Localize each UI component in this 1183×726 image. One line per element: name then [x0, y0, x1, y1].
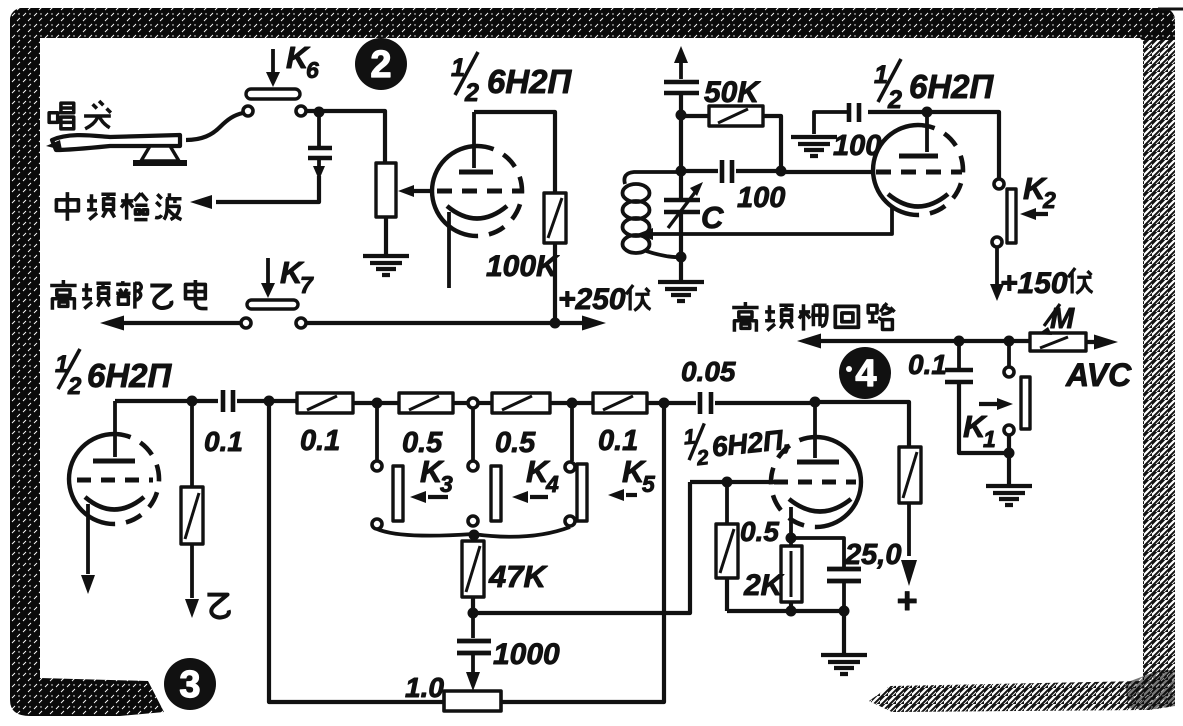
- node top of tank: [676, 110, 687, 121]
- border bottom-right corner shade: [1125, 670, 1175, 710]
- capacitor 0.05: [700, 392, 815, 414]
- node at K6 output: [314, 107, 325, 118]
- node cathode: [786, 533, 797, 544]
- border right bar: [1143, 10, 1175, 702]
- tube U2 1/2 6N2P label: [874, 59, 995, 114]
- capacitor (antenna coupling): [664, 82, 699, 115]
- wire K6 to pot: [307, 111, 385, 163]
- plate load wire: [815, 402, 909, 447]
- svg-text:2K: 2K: [743, 569, 785, 602]
- arrow +150V down: [990, 247, 1004, 301]
- AVC line: [797, 334, 1030, 349]
- svg-text:25,0: 25,0: [844, 539, 901, 571]
- svg-text:0.1: 0.1: [300, 425, 340, 457]
- wire plate to K2: [927, 112, 999, 178]
- svg-text:2: 2: [370, 44, 391, 86]
- label 高频栅回路: [732, 302, 894, 332]
- wire 1.0 to right riser: [501, 403, 664, 702]
- tube U1 plate: [459, 112, 493, 172]
- svg-text:M: M: [1050, 303, 1075, 335]
- coil L (tank): [623, 172, 682, 257]
- capacitor 100 (series): [681, 160, 781, 183]
- svg-text:6Н2П: 6Н2П: [87, 357, 173, 394]
- wire 47K node to U4 grid: [473, 482, 690, 613]
- tube U4 cathode: [789, 499, 851, 512]
- svg-text:4: 4: [545, 471, 559, 497]
- node grid line left: [676, 166, 687, 177]
- arrow to B (乙): [185, 544, 229, 618]
- switch K6: [243, 40, 319, 116]
- svg-text:AVC: AVC: [1065, 357, 1132, 393]
- capacitor 0.1 (coupling): [223, 390, 297, 412]
- resistor 2K: [781, 538, 802, 611]
- switch K4: [468, 408, 559, 526]
- tube U3 envelope: [69, 434, 159, 524]
- section marker 2: [355, 38, 407, 90]
- tube U3 grid (dashed): [77, 478, 153, 483]
- ground (cathode): [821, 611, 867, 674]
- switch common bus: [377, 527, 570, 537]
- resistor 1M: [1030, 333, 1118, 351]
- capacitor 1000: [457, 613, 491, 691]
- wire pickup to K6 left contact: [186, 113, 243, 140]
- tube U2 cathode: [888, 194, 948, 207]
- cathode bottom bus: [727, 609, 844, 613]
- switch K3: [372, 403, 453, 529]
- node 2K bottom: [786, 606, 797, 617]
- svg-text:47K: 47K: [488, 559, 548, 594]
- ground (grid bypass): [791, 137, 837, 156]
- wire grid line to tube: [781, 170, 875, 174]
- node bottom bus junction: [659, 398, 670, 409]
- label +250伏: [558, 283, 651, 316]
- arrow +250V: [582, 316, 606, 331]
- label 唱头: [49, 101, 111, 129]
- tube U1 cathode lead: [447, 212, 451, 288]
- node bus / 47K: [469, 530, 480, 541]
- tube U3 cathode lead w/ arrow: [81, 504, 95, 594]
- resistor 1.0: [444, 691, 501, 711]
- svg-text:0.1: 0.1: [598, 425, 638, 457]
- plate load resistor: [899, 447, 921, 503]
- svg-text:3: 3: [179, 664, 200, 706]
- svg-text:0.05: 0.05: [681, 356, 736, 387]
- svg-text:100K: 100K: [486, 250, 560, 283]
- top-right edge line fragment: [1158, 8, 1183, 11]
- label 高频部乙电: [50, 280, 207, 310]
- svg-text:100: 100: [737, 182, 785, 214]
- switch K5: [565, 403, 656, 526]
- svg-text:4: 4: [855, 353, 876, 395]
- node U2 plate: [922, 107, 933, 118]
- node grid line right: [776, 166, 787, 177]
- tone resistor 0.5 b: [492, 393, 593, 413]
- svg-text:+150: +150: [1000, 267, 1068, 300]
- svg-text:0.1: 0.1: [204, 426, 243, 457]
- tube U2 grid (dashed): [876, 170, 962, 175]
- svg-text:0.1: 0.1: [908, 349, 947, 380]
- capacitor (phono coupling): [216, 112, 332, 202]
- border top bar: [10, 8, 1175, 38]
- resistor 0.5 (grid): [716, 482, 738, 611]
- tube U3 plate: [93, 401, 135, 461]
- arrow to output +: [901, 503, 917, 586]
- svg-text:6Н2П: 6Н2П: [909, 68, 995, 105]
- switch K1: [963, 341, 1030, 453]
- phono pickup arm: [52, 135, 180, 150]
- tone resistor 0.1 b: [593, 393, 696, 413]
- ground (tank): [658, 257, 704, 301]
- switch K7: [241, 255, 314, 328]
- border bottom-right band: [869, 668, 1175, 712]
- arrow to IF detector: [190, 195, 212, 209]
- tube U2 envelope: [873, 125, 963, 215]
- tone resistor 0.1 a: [297, 393, 399, 413]
- svg-text:2: 2: [1042, 187, 1056, 213]
- wire K7 to left arrow: [112, 321, 241, 325]
- section marker 4: [839, 347, 891, 399]
- ground (pot): [363, 256, 409, 275]
- svg-text:+250: +250: [558, 283, 626, 316]
- wire pot to ground: [384, 217, 388, 254]
- label 1M with arrow: [1038, 303, 1075, 335]
- wire U3 plate to coupling cap: [115, 399, 218, 403]
- svg-text:C: C: [701, 200, 724, 235]
- wire grid to node: [690, 480, 774, 484]
- svg-text:5: 5: [642, 471, 656, 497]
- node plate/resistor: [187, 396, 198, 407]
- section marker 3: [164, 658, 216, 710]
- svg-text:50K: 50K: [704, 76, 761, 109]
- capacitor 25.0: [791, 538, 861, 611]
- node B+ / 100K: [550, 318, 561, 329]
- node K1 bottom: [1004, 448, 1015, 459]
- wiper arrow from tube grid: [398, 185, 434, 197]
- svg-text:3: 3: [440, 471, 453, 497]
- switch K2: [992, 171, 1056, 247]
- wire 100K to B+ line: [553, 243, 557, 323]
- node 47K bottom: [468, 608, 479, 619]
- resistor 100K: [544, 193, 566, 243]
- svg-text:+: +: [896, 580, 917, 621]
- border bottom-left corner: [10, 630, 164, 716]
- ground (K1): [986, 453, 1032, 505]
- tube U1 envelope: [432, 146, 522, 236]
- potentiometer (volume): [376, 163, 396, 217]
- tube U4 cathode lead: [789, 507, 793, 538]
- border left bar: [10, 8, 40, 678]
- grid-leak resistor: [181, 401, 203, 544]
- node K5: [567, 398, 578, 409]
- variable capacitor C: [664, 115, 703, 257]
- tube U4 grid (dashed): [774, 480, 856, 485]
- label +150伏: [1000, 267, 1093, 300]
- node 25.0 bottom: [839, 606, 850, 617]
- node U4 plate top: [810, 397, 821, 408]
- svg-text:1: 1: [983, 426, 996, 452]
- tube U1 cathode: [447, 206, 507, 219]
- tube U2 plate: [899, 112, 938, 156]
- capacitor 0.1 (AVC): [945, 341, 1009, 453]
- node grid / 0.5: [722, 477, 733, 488]
- antenna arrow up: [674, 46, 688, 79]
- node after coupling cap: [264, 396, 275, 407]
- tube U1 1/2 6N2P label: [451, 52, 573, 107]
- svg-text:1000: 1000: [493, 638, 560, 671]
- long return wire: [269, 401, 444, 702]
- tube U3 1/2 6N2P label: [55, 349, 173, 400]
- tube U4 envelope (mirrored): [771, 437, 861, 527]
- svg-text:6Н2П: 6Н2П: [487, 63, 573, 100]
- svg-text:2: 2: [887, 86, 902, 114]
- node K3: [372, 398, 383, 409]
- svg-text:2: 2: [67, 373, 82, 400]
- node AVC / 0.1: [954, 336, 965, 347]
- tube U4 plate: [797, 402, 839, 462]
- open node K4: [468, 398, 492, 408]
- label 中频检波: [56, 192, 181, 221]
- capacitor 100 (grid bypass): [814, 103, 927, 134]
- resistor 47K: [462, 535, 484, 613]
- wire plate to 100K: [474, 112, 555, 193]
- svg-text:6: 6: [306, 57, 319, 83]
- tube U4 1/2 6N2P label: [682, 415, 793, 472]
- svg-text:2: 2: [464, 79, 479, 107]
- node AVC / K1: [1004, 336, 1015, 347]
- node tank bottom: [676, 252, 687, 263]
- B+ wire K7 to right: [307, 321, 594, 325]
- svg-text:1.0: 1.0: [405, 672, 444, 703]
- tone resistor 0.5 a: [399, 393, 467, 413]
- tube U3 cathode: [85, 497, 144, 510]
- svg-text:0.5: 0.5: [740, 516, 779, 547]
- resistor 50K: [681, 106, 781, 171]
- border top-right corner patch: [1120, 8, 1175, 40]
- coil tap line to cathode: [637, 206, 892, 240]
- tube U1 grid (dashed): [437, 189, 524, 194]
- svg-text:7: 7: [300, 272, 314, 298]
